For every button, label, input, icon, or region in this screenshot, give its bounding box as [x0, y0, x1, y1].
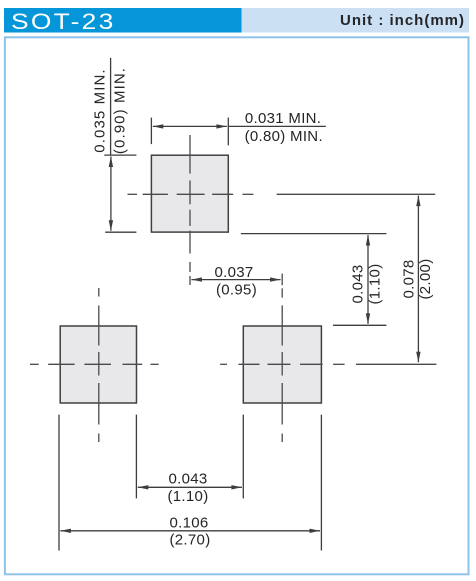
header bar SOT-23 — [4, 8, 242, 35]
dimension 0.031 MIN top: extension lines — [151, 118, 228, 146]
svg-text:0.078: 0.078 — [400, 259, 417, 298]
svg-text:(2.00): (2.00) — [417, 259, 434, 300]
dimension 0.043 bottom: label — [168, 471, 209, 505]
svg-text:(0.80) MIN.: (0.80) MIN. — [245, 128, 323, 145]
dimension 0.031 MIN top: leader line — [228, 125, 325, 127]
dimension 0.106 bottom: label — [169, 515, 210, 549]
svg-text:0.043: 0.043 — [168, 471, 207, 488]
svg-text:0.106: 0.106 — [169, 515, 208, 532]
dimension 0.078 right: dimension line with arrows — [417, 196, 419, 363]
svg-text:0.035 MIN.: 0.035 MIN. — [92, 68, 109, 152]
dimension 0.035 MIN left: dimension line with arrows — [110, 157, 112, 231]
dimension 0.035 MIN left: leader line — [110, 58, 112, 155]
svg-text:0.031 MIN.: 0.031 MIN. — [245, 110, 321, 127]
centerline horizontal top pad — [128, 193, 436, 195]
dimension 0.043 right: dimension line with arrows — [367, 235, 369, 324]
dimension 0.031 MIN top: label — [245, 110, 323, 145]
svg-text:SOT-23: SOT-23 — [11, 10, 116, 34]
svg-text:0.037: 0.037 — [214, 264, 253, 281]
pad P2 bottom-left — [60, 326, 136, 403]
dimension 0.043 right: extension lines — [241, 234, 387, 326]
svg-text:(2.70): (2.70) — [170, 532, 211, 549]
centerline vertical top pad — [189, 135, 191, 285]
dimension 0.043 bottom: dimension line with arrows — [138, 486, 242, 488]
centerline horizontal bottom pads — [30, 363, 436, 365]
svg-text:(0.90) MIN.: (0.90) MIN. — [112, 67, 129, 154]
dimension 0.035 MIN left: label — [92, 67, 129, 154]
bottom extension lines — [59, 415, 321, 551]
svg-text:(0.95): (0.95) — [216, 282, 257, 299]
dimension 0.037 middle: dimension line with arrows — [191, 279, 280, 281]
svg-text:0.043: 0.043 — [350, 264, 367, 303]
svg-text:(1.10): (1.10) — [367, 264, 384, 305]
dimension 0.078 right: label — [400, 259, 434, 300]
svg-text:Unit : inch(mm): Unit : inch(mm) — [340, 12, 465, 29]
svg-text:(1.10): (1.10) — [168, 488, 209, 505]
dimension 0.031 MIN top: dimension line with arrows — [153, 125, 227, 127]
centerline vertical bottom-left pad — [98, 288, 100, 442]
dimension 0.035 MIN left: extension lines — [104, 155, 136, 232]
header unit label — [242, 8, 470, 33]
dimension 0.106 bottom: dimension line with arrows — [60, 530, 320, 532]
pad P1 top — [151, 155, 228, 232]
pad P3 bottom-right — [243, 326, 321, 403]
dimension 0.037 middle: label — [214, 264, 257, 299]
centerline vertical bottom-right pad — [281, 274, 283, 442]
dimension 0.043 right: label — [350, 264, 384, 305]
